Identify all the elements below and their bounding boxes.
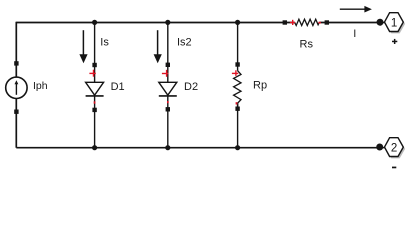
- diode D1: [86, 63, 104, 112]
- red polarity cross D2: [162, 70, 168, 77]
- junction dot top Rp: [235, 20, 240, 25]
- svg-text:Iph: Iph: [33, 80, 48, 92]
- port dot 2: [376, 144, 383, 151]
- svg-text:Is: Is: [100, 37, 109, 49]
- red tick D1 bottom: [94, 101, 96, 103]
- port dot 1: [377, 19, 384, 26]
- red polarity cross Rs: [290, 20, 295, 25]
- wire top rail: [16, 22, 294, 24]
- svg-text:2: 2: [391, 142, 397, 154]
- wire left vertical: [15, 22, 17, 148]
- wire top rail right segment: [319, 22, 379, 24]
- red tick Rs right: [318, 22, 321, 24]
- port 1: [385, 13, 406, 34]
- junction dot top D2: [165, 20, 170, 25]
- junction dot bottom Rp: [235, 145, 240, 150]
- wire Rp branch: [237, 22, 239, 147]
- svg-text:D1: D1: [111, 81, 125, 93]
- svg-text:D2: D2: [184, 81, 198, 93]
- wire port 1 stub: [379, 22, 385, 24]
- red tick D2 bottom: [167, 101, 169, 103]
- red polarity cross D1: [89, 70, 95, 77]
- svg-text:Rp: Rp: [253, 80, 267, 92]
- resistor Rs: [283, 19, 329, 25]
- junction dot bottom D1: [92, 145, 97, 150]
- wire D2 branch: [167, 22, 169, 147]
- wire port 2 stub: [379, 147, 385, 149]
- port 2: [385, 138, 406, 159]
- plus sign: [392, 39, 397, 44]
- svg-text:Rs: Rs: [300, 39, 314, 51]
- current arrow Is: [79, 30, 87, 63]
- current source Iph: [6, 61, 27, 114]
- red tick Rp bottom: [236, 102, 238, 104]
- wire bottom rail: [16, 147, 379, 149]
- junction dot bottom D2: [165, 145, 170, 150]
- current arrow I: [340, 6, 372, 13]
- junction dot top D1: [92, 20, 97, 25]
- svg-text:Is2: Is2: [177, 37, 192, 49]
- wire D1 branch: [94, 22, 96, 147]
- resistor Rp: [234, 62, 241, 111]
- svg-text:1: 1: [391, 17, 397, 29]
- minus sign: [392, 167, 396, 169]
- diode D2: [159, 63, 177, 112]
- red polarity cross Rp: [232, 70, 238, 76]
- current arrow Is2: [154, 30, 162, 63]
- svg-text:I: I: [353, 28, 356, 40]
